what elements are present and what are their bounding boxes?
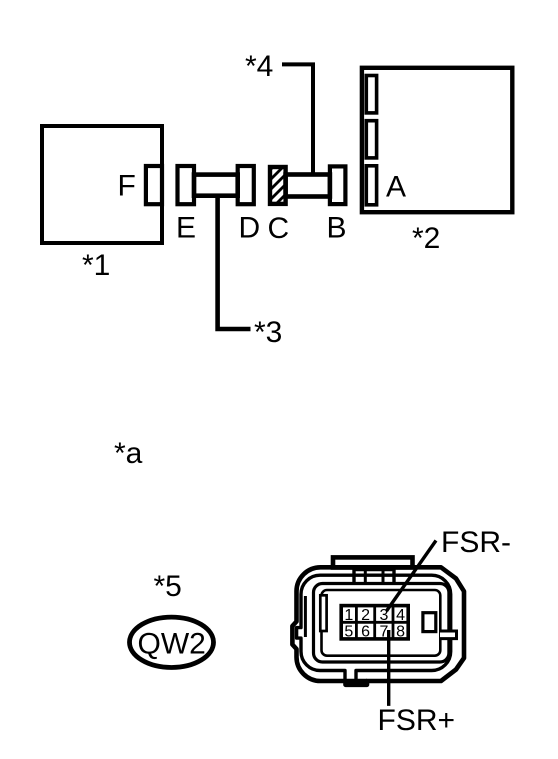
pin E [178, 166, 195, 204]
wire pointer from wire E-D down to *3 [218, 196, 251, 329]
FSR- pointer line to pin 3 [387, 541, 437, 612]
pin F [146, 166, 162, 204]
svg-text:E: E [176, 212, 196, 245]
svg-text:4: 4 [396, 607, 405, 624]
connector: right keyway [423, 613, 436, 632]
box *1 (ECU left) [42, 126, 162, 243]
connector: left keyway slot [320, 595, 326, 631]
svg-text:5: 5 [344, 624, 353, 641]
connector: inner shroud left wall [304, 596, 307, 637]
svg-text:QW2: QW2 [138, 628, 206, 661]
svg-text:6: 6 [361, 624, 370, 641]
wire E-D [194, 175, 238, 196]
svg-text:*5: *5 [154, 570, 182, 603]
svg-text:B: B [327, 212, 347, 245]
wire pointer from *4 to wire C-B [282, 64, 313, 176]
pin D [238, 166, 254, 204]
svg-text:F: F [118, 170, 136, 203]
pin C (hatched) [262, 150, 290, 238]
pin block [341, 606, 408, 639]
FSR+ pointer line to pin 7 [387, 630, 390, 706]
box *2 pin 1 [366, 76, 376, 113]
svg-text:*1: *1 [82, 249, 110, 282]
box *2 pin 3 (A) [366, 166, 376, 205]
connector: outer body contour [292, 567, 464, 685]
connector: lock latch detail [354, 566, 394, 584]
connector: inner body contour [297, 575, 451, 681]
svg-text:*a: *a [114, 437, 143, 470]
svg-text:8: 8 [396, 624, 405, 641]
svg-text:D: D [239, 212, 261, 245]
svg-text:A: A [386, 171, 406, 204]
connector: bottom edge across tab [346, 679, 368, 684]
box *2 pin 2 [366, 121, 376, 158]
svg-text:FSR-: FSR- [441, 526, 511, 559]
pin block grid [341, 606, 408, 639]
svg-text:*2: *2 [412, 222, 440, 255]
connector: top lock tab [333, 557, 413, 567]
svg-text:2: 2 [361, 607, 370, 624]
connector: right wire slot tab [440, 631, 457, 639]
svg-text:*3: *3 [254, 316, 282, 349]
connector: mating face inner [322, 590, 441, 656]
connector: mating face outer [314, 584, 449, 663]
box *2 (ECU right) [362, 68, 512, 212]
svg-text:1: 1 [344, 607, 353, 624]
pin B [330, 166, 346, 204]
svg-text:FSR+: FSR+ [378, 704, 456, 737]
wire C-B [286, 175, 330, 197]
svg-text:*4: *4 [245, 50, 273, 83]
connector code oval QW2 [130, 617, 214, 667]
svg-text:C: C [268, 212, 290, 245]
